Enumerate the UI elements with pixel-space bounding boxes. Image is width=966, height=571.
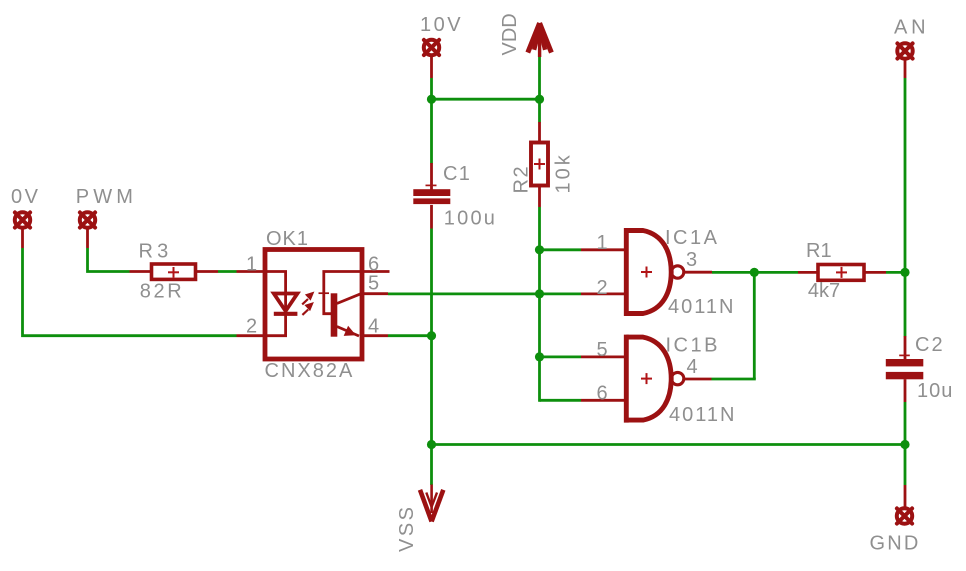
wire PWM lead: [86, 228, 89, 249]
pin 10V: [424, 40, 439, 55]
svg-text:4: 4: [687, 356, 698, 378]
svg-text:2: 2: [246, 316, 257, 338]
svg-text:6: 6: [597, 383, 608, 405]
transistor emitter: [337, 327, 359, 337]
svg-text:VSS: VSS: [396, 504, 418, 552]
gate IC1B pin lead 5: [581, 355, 626, 358]
pin lead 5: [362, 292, 388, 295]
wire GND lead: [904, 485, 907, 509]
transistor emitter arrow: [344, 326, 356, 336]
capacitor C1: [413, 163, 450, 229]
capacitor C2: [886, 336, 924, 402]
resistor R2: [531, 122, 548, 207]
wire rail to R2: [538, 99, 541, 122]
svg-text:3: 3: [686, 249, 697, 271]
wire OK1 pin4 to center bus: [388, 334, 432, 337]
resistor R3: [130, 264, 219, 279]
svg-text:CNX82A: CNX82A: [265, 360, 355, 382]
pin PWM: [80, 212, 95, 227]
wire 10V lead: [430, 55, 433, 78]
nand gate IC1B: [626, 335, 684, 423]
wire branch gate B in6: [540, 399, 582, 402]
pin AN: [897, 43, 912, 58]
wire bus to GND: [904, 445, 907, 486]
wire R2 to node: [538, 207, 541, 251]
svg-text:R2: R2: [511, 165, 533, 194]
node bus-left: [427, 440, 436, 449]
svg-text:C2: C2: [915, 334, 945, 356]
node in2: [535, 289, 544, 298]
wire top rail: [430, 98, 541, 101]
opto arrow upper: [302, 292, 314, 305]
svg-text:IC1A: IC1A: [665, 227, 719, 249]
wire AN down: [904, 78, 907, 272]
svg-text:VDD: VDD: [499, 13, 521, 55]
svg-text:1: 1: [246, 254, 257, 276]
svg-text:10k: 10k: [553, 152, 575, 193]
wire rail to C1: [430, 99, 433, 163]
wire out3 down to out4: [753, 272, 756, 379]
node bus-right: [900, 440, 909, 449]
svg-text:C1: C1: [443, 163, 471, 185]
wire 0V net: [23, 248, 237, 336]
wire R2 node vertical: [538, 250, 541, 402]
node pin4 junction: [427, 331, 436, 340]
svg-text:PWM: PWM: [76, 186, 137, 208]
svg-text:R3: R3: [139, 241, 173, 263]
wire VDD to rail: [538, 57, 541, 101]
supply VSS: [420, 485, 443, 522]
wire AN lead: [904, 59, 907, 79]
transistor base path: [324, 272, 362, 314]
wire 10V to rail: [430, 78, 433, 101]
gate IC1B output lead: [685, 378, 712, 381]
wire R1 to AN node: [886, 271, 905, 274]
wire OK1 pin5 to gate A in2: [388, 292, 581, 295]
node AN junction: [900, 268, 909, 277]
svg-text:IC1B: IC1B: [666, 335, 720, 357]
LED anode path: [265, 272, 286, 294]
svg-text:4: 4: [368, 316, 379, 338]
supply VDD: [528, 23, 552, 57]
node out3: [750, 268, 759, 277]
wire 0V lead: [21, 228, 24, 249]
LED cathode bar: [274, 312, 298, 316]
wire C1 to bottom bus: [430, 229, 433, 445]
transistor base tick: [319, 292, 330, 294]
wire R3 to OK1: [218, 270, 237, 273]
svg-text:1: 1: [597, 232, 608, 254]
svg-text:0V: 0V: [11, 186, 40, 208]
svg-text:10V: 10V: [420, 14, 463, 36]
svg-text:2: 2: [597, 277, 608, 299]
node rail-right: [535, 95, 544, 104]
svg-text:GND: GND: [870, 533, 921, 555]
wire bottom bus: [432, 443, 906, 446]
wire branch gate A in1: [540, 248, 582, 251]
wire AN node to C2: [904, 272, 907, 336]
svg-text:5: 5: [368, 273, 379, 295]
svg-text:OK1: OK1: [266, 228, 309, 250]
transistor bar: [331, 293, 338, 336]
gate IC1A pin lead 1: [581, 248, 626, 251]
optocoupler OK1: [237, 250, 390, 360]
svg-text:R1: R1: [806, 240, 832, 262]
wire C2 to bottom bus: [904, 402, 907, 445]
pin lead 4: [362, 334, 388, 337]
LED cathode path: [265, 294, 286, 336]
pin 0V: [15, 212, 30, 227]
svg-text:4011N: 4011N: [668, 296, 735, 318]
wire out3 to R1: [712, 271, 798, 274]
node in1: [535, 245, 544, 254]
svg-text:4011N: 4011N: [669, 404, 736, 426]
LED triangle: [274, 294, 298, 312]
wire PWM net: [88, 248, 130, 272]
svg-text:5: 5: [597, 339, 608, 361]
resistor R1: [798, 265, 886, 281]
OK1 box: [265, 250, 362, 360]
pin GND: [897, 508, 912, 523]
svg-text:100u: 100u: [444, 208, 497, 230]
gate IC1B pin lead 6: [581, 399, 626, 402]
svg-text:10u: 10u: [917, 380, 953, 402]
pin lead 1: [237, 270, 266, 273]
opto arrow lower: [302, 302, 314, 315]
node in5: [535, 352, 544, 361]
svg-text:4k7: 4k7: [808, 280, 840, 302]
svg-text:82R: 82R: [140, 281, 185, 303]
nand gate IC1A: [626, 228, 684, 316]
svg-text:AN: AN: [894, 17, 929, 39]
pin lead 2: [237, 334, 266, 337]
wire out4 to riser: [712, 378, 756, 381]
pin lead 6 stub: [362, 270, 390, 273]
gate IC1A pin lead 2: [581, 292, 626, 295]
wire bus to VSS: [430, 445, 433, 486]
node rail-left: [427, 95, 436, 104]
wire branch gate B in5: [540, 355, 582, 358]
gate IC1A output lead: [685, 271, 713, 274]
transistor collector: [337, 294, 361, 304]
